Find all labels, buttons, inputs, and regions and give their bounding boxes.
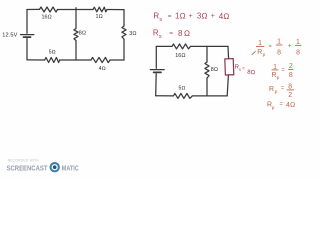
svg-text:s: s bbox=[159, 34, 162, 40]
watermark O-Matic logo circle bbox=[50, 162, 60, 172]
wire C1 top-middle segment bbox=[58, 9, 94, 11]
resistor 5ohm (circuit 1 bottom-left) bbox=[45, 58, 60, 63]
svg-text:8: 8 bbox=[289, 72, 293, 79]
wire C2 top-left segment bbox=[156, 45, 172, 47]
wire C2 middle branch upper bbox=[206, 46, 208, 62]
equation E2: 1/Rp = 2/8 (orange-red) bbox=[272, 63, 294, 81]
svg-text:MATIC: MATIC bbox=[62, 165, 79, 173]
equation E4: Rp = 4 ohm (orange-red) bbox=[267, 101, 295, 110]
wire C2 right upper (to box) bbox=[227, 46, 230, 58]
label Rs = 8 ohm (red, next to box) bbox=[234, 64, 256, 76]
svg-text:p: p bbox=[263, 53, 266, 58]
resistor 3ohm (circuit 1 right branch) bbox=[122, 26, 126, 39]
svg-text:2: 2 bbox=[288, 92, 292, 99]
svg-text:=: = bbox=[169, 30, 173, 37]
svg-text:R: R bbox=[257, 49, 262, 56]
battery source 12.5V long plate bbox=[21, 34, 34, 36]
wire C1 right upper bbox=[123, 10, 125, 26]
battery source C2 short plate bbox=[154, 71, 161, 73]
equation line 1: Rs = 1ohm + 3ohm + 4ohm (red) bbox=[153, 11, 229, 23]
svg-text:+: + bbox=[211, 13, 215, 20]
battery source C2 long plate bbox=[151, 69, 165, 71]
resistor 8ohm (circuit 2 middle branch) bbox=[205, 62, 209, 78]
resistor 1ohm (circuit 1 top-right) bbox=[93, 7, 107, 12]
svg-text:1Ω: 1Ω bbox=[96, 14, 103, 20]
wire C2 middle branch lower bbox=[206, 78, 208, 96]
battery source 12.5V short plate bbox=[24, 36, 31, 38]
svg-text:SCREENCAST: SCREENCAST bbox=[7, 165, 49, 173]
svg-text:8: 8 bbox=[288, 83, 292, 90]
stray tick before Rp bbox=[252, 51, 256, 55]
wire C1 left lower bbox=[26, 39, 28, 60]
svg-text:s: s bbox=[159, 17, 162, 23]
svg-text:8: 8 bbox=[296, 50, 300, 57]
svg-text:=: = bbox=[242, 66, 245, 72]
equation E3: Rp = 8/2 (orange-red) bbox=[269, 83, 294, 99]
wire C1 right lower bbox=[123, 39, 125, 60]
svg-text:s: s bbox=[239, 67, 241, 72]
svg-text:8Ω: 8Ω bbox=[247, 70, 256, 77]
svg-text:16Ω: 16Ω bbox=[42, 14, 52, 20]
svg-text:1Ω: 1Ω bbox=[175, 11, 186, 20]
resistor box Rs (equivalent resistor, red box) bbox=[225, 59, 234, 75]
svg-text:8Ω: 8Ω bbox=[79, 31, 86, 37]
resistor 16ohm (circuit 2 top) bbox=[172, 44, 191, 49]
svg-text:3Ω: 3Ω bbox=[129, 31, 136, 37]
wire C2 top-right segment bbox=[191, 45, 229, 47]
svg-text:4Ω: 4Ω bbox=[99, 66, 106, 72]
svg-text:+: + bbox=[189, 13, 193, 20]
wire C1 bottom-right segment bbox=[110, 59, 124, 61]
svg-text:=: = bbox=[168, 13, 172, 20]
wire C1 middle branch upper bbox=[75, 8, 77, 29]
wire C2 bottom-left segment bbox=[156, 95, 174, 97]
wire C2 left upper bbox=[155, 46, 157, 68]
resistor 8ohm (circuit 1 middle branch) bbox=[74, 29, 78, 41]
wire C2 left lower bbox=[155, 74, 158, 96]
wire C1 top-right segment bbox=[107, 9, 124, 11]
wire C1 middle branch lower bbox=[75, 41, 77, 61]
svg-text:8: 8 bbox=[277, 49, 281, 56]
equation line 2: Rs = 8ohm (red) bbox=[153, 29, 192, 41]
resistor 4ohm (circuit 1 bottom-right) bbox=[91, 57, 110, 62]
wire C2 right lower (below box) bbox=[227, 75, 228, 96]
wire C1 bottom-middle segment bbox=[60, 59, 91, 61]
svg-text:RECORDED WITH: RECORDED WITH bbox=[8, 158, 40, 162]
svg-text:4Ω: 4Ω bbox=[219, 12, 230, 21]
svg-text:R: R bbox=[269, 86, 274, 93]
svg-text:+: + bbox=[288, 42, 292, 49]
wire C1 top-left segment bbox=[27, 8, 40, 10]
svg-text:p: p bbox=[277, 76, 280, 81]
svg-text:5Ω: 5Ω bbox=[179, 86, 186, 92]
svg-text:8Ω: 8Ω bbox=[178, 29, 191, 38]
wire C1 left upper bbox=[26, 10, 28, 34]
wire C2 bottom-right segment bbox=[192, 95, 227, 97]
svg-text:5Ω: 5Ω bbox=[49, 50, 56, 56]
svg-text:4Ω: 4Ω bbox=[286, 102, 295, 109]
svg-text:8Ω: 8Ω bbox=[211, 67, 218, 73]
resistor 16ohm (circuit 1 top-left) bbox=[40, 7, 58, 12]
svg-text:12.5V: 12.5V bbox=[2, 33, 17, 39]
wire C1 bottom-left segment bbox=[27, 59, 45, 61]
svg-text:p: p bbox=[275, 90, 278, 95]
svg-text:3Ω: 3Ω bbox=[197, 11, 208, 20]
equation E1: 1/Rp = 1/8 + 1/8 (orange-red) bbox=[252, 39, 302, 59]
resistor 5ohm (circuit 2 bottom) bbox=[173, 93, 192, 98]
svg-text:16Ω: 16Ω bbox=[175, 53, 185, 59]
svg-text:p: p bbox=[272, 106, 275, 111]
